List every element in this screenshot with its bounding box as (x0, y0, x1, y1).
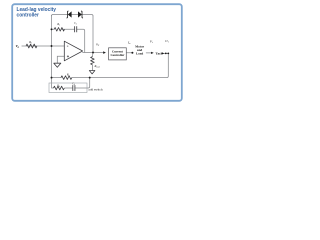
wire: motor to tach (146, 52, 151, 54)
op-amp minus sign (67, 45, 68, 47)
node D (bottom network left) (51, 77, 53, 79)
wire: tach feedback down and left (90, 53, 169, 77)
current controller box U2 (109, 48, 127, 60)
wire: tach output (162, 52, 168, 54)
wire: left vertical bus (51, 15, 53, 77)
svg-text:Cb: Cb (72, 83, 75, 87)
node C (op-amp output) (92, 52, 94, 54)
wire: bottom network lower branch (52, 78, 90, 88)
switch option box (49, 83, 87, 93)
arrowhead into tach (151, 52, 154, 54)
arrowhead into current controller (103, 51, 106, 54)
border frame (12, 4, 182, 101)
svg-text:Rf: Rf (56, 23, 60, 27)
wire: input to op-amp minus (22, 45, 65, 47)
ground (op-amp plus input) (54, 63, 61, 67)
ground (below Rload) (89, 71, 95, 74)
label Motor and Load (135, 44, 145, 55)
wire: op-amp output to controller (83, 52, 104, 54)
node B (RC row junction) (51, 28, 53, 30)
wire: diode row (52, 15, 94, 16)
resistor Rload (vertical at output) (91, 57, 95, 65)
zener diode D2 (right, cathode right) (78, 11, 83, 18)
op-amp U1 (64, 41, 82, 61)
wire: RC feedback row (52, 29, 85, 52)
wire: controller output (126, 52, 131, 54)
wire: bottom network top branch (52, 77, 90, 79)
wire: op-amp plus input to ground (57, 56, 64, 63)
node A (summing junction) (51, 45, 53, 47)
svg-text:Tach: Tach (156, 51, 163, 55)
svg-text:add switch: add switch (88, 87, 103, 91)
op-amp plus sign (67, 55, 69, 57)
capacitor Cf (feedback) (75, 26, 77, 32)
zener diode D1 (left, cathode left) (67, 11, 72, 18)
resistor Rf (feedback) (54, 28, 64, 32)
label Current Controller (110, 49, 124, 57)
svg-text:controller: controller (17, 13, 40, 19)
wire: output node down to Rload (91, 53, 94, 71)
resistor Rt (bottom feedback) (61, 76, 72, 80)
node H (feedback corner dot) (167, 53, 169, 55)
wire: right vertical (diode branch down to output node) (92, 16, 94, 53)
node E (bottom network right) (89, 77, 91, 79)
resistor Rb (boxed branch) (54, 86, 65, 90)
svg-text:Controller: Controller (110, 53, 124, 57)
svg-text:Rb: Rb (56, 85, 60, 89)
node F (motor input dot) (131, 52, 133, 54)
title: Lead-lag velocity controller (17, 7, 57, 19)
capacitor Cb (boxed branch) (73, 85, 75, 91)
svg-text:Load: Load (136, 51, 143, 55)
arrowhead after tach (162, 52, 165, 54)
resistor R1 (input) (26, 44, 37, 48)
node G (tach output dot) (165, 53, 167, 55)
